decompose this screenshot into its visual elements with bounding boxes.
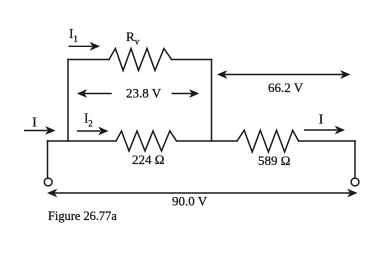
voltage arrow 23.8 V left half <box>77 89 112 98</box>
caption Figure 26.77a <box>48 209 117 223</box>
label I left <box>32 115 37 130</box>
label I right <box>319 111 324 126</box>
wire right terminal riser <box>354 141 356 178</box>
svg-text:Figure 26.77a: Figure 26.77a <box>48 209 117 223</box>
label Rv <box>126 29 140 47</box>
current arrow I1 <box>69 42 101 51</box>
svg-text:589 Ω: 589 Ω <box>258 153 290 168</box>
current arrow I2 <box>77 127 109 136</box>
voltage arrow 23.8 V right half <box>172 89 200 98</box>
current arrow I left <box>24 126 56 135</box>
svg-text:66.2 V: 66.2 V <box>268 80 304 95</box>
voltage arrow 90.0 V double-headed <box>47 189 358 198</box>
resistor Rv zigzag <box>109 49 172 71</box>
svg-text:90.0 V: 90.0 V <box>172 194 208 209</box>
value label 589 ohm <box>258 153 290 168</box>
resistor R2 589 ohm zigzag <box>237 130 299 152</box>
value label 23.8 V <box>126 86 162 101</box>
wire bottom middle segment <box>177 140 238 142</box>
svg-text:v: v <box>135 37 140 47</box>
wire top left segment <box>68 59 109 61</box>
terminal left <box>44 178 52 186</box>
value label 224 ohm <box>132 152 164 167</box>
value label 66.2 V <box>268 80 304 95</box>
wire top loop left vertical <box>67 60 69 142</box>
resistor R1 224 ohm zigzag <box>116 131 177 151</box>
current arrow I right <box>304 126 345 135</box>
wire top loop right vertical <box>211 60 213 142</box>
svg-text:23.8 V: 23.8 V <box>126 86 162 101</box>
svg-text:R: R <box>126 29 135 44</box>
terminal right <box>351 178 359 186</box>
label I2 <box>84 111 93 129</box>
voltage arrow 66.2 V double-headed <box>217 70 351 79</box>
wire top right segment <box>172 59 212 61</box>
value label 90.0 V <box>172 194 208 209</box>
svg-text:I: I <box>32 115 37 130</box>
wire left terminal riser <box>47 141 49 178</box>
svg-text:224 Ω: 224 Ω <box>132 152 164 167</box>
wire bottom right segment <box>299 140 356 142</box>
svg-text:2: 2 <box>88 118 93 128</box>
wire bottom left segment <box>48 140 117 142</box>
label I1 <box>69 26 78 44</box>
svg-text:I: I <box>319 111 324 126</box>
svg-text:1: 1 <box>73 34 78 44</box>
